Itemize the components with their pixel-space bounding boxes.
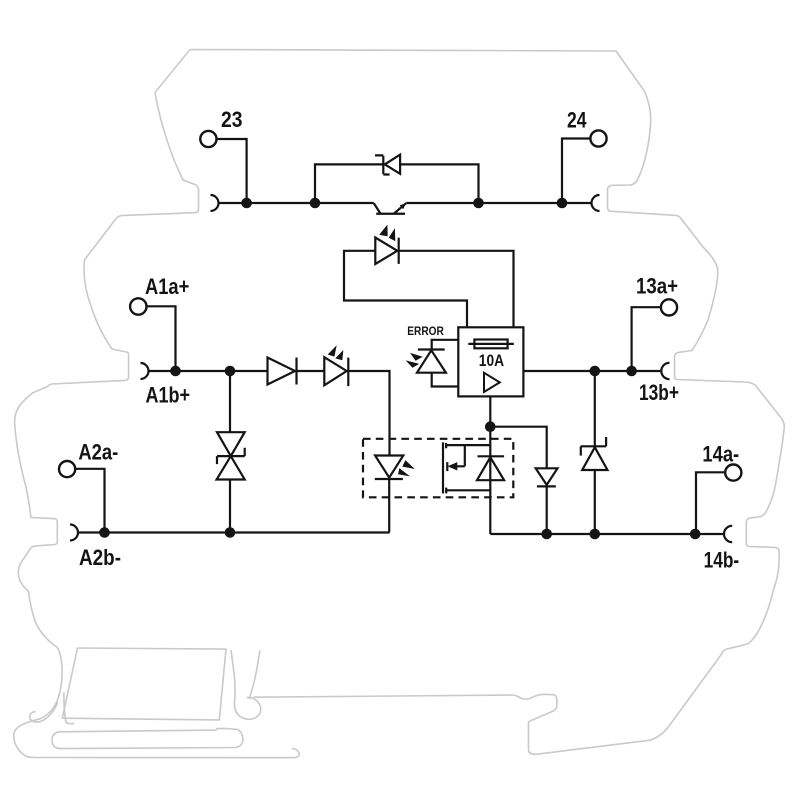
photo-SCR gate arrow bbox=[448, 462, 458, 470]
svg-text:A2a-: A2a- bbox=[78, 439, 118, 464]
ERROR LED arrows bbox=[410, 353, 423, 361]
junction node 14a drop bbox=[690, 529, 701, 540]
amplifier symbol bbox=[484, 373, 500, 392]
terminal A1b clamp arc bbox=[141, 363, 149, 379]
terminal 14b clamp arc bbox=[724, 526, 732, 542]
U1 right pin to 13b bbox=[523, 370, 661, 372]
svg-text:23: 23 bbox=[221, 107, 243, 132]
zener Z1 bbox=[375, 155, 390, 174]
ERROR LED stubs bbox=[432, 340, 459, 387]
LED L2 arrows bbox=[328, 345, 337, 356]
wire A1a bbox=[147, 306, 176, 371]
LED L1 arrows bbox=[379, 225, 388, 237]
svg-text:A1a+: A1a+ bbox=[145, 274, 189, 299]
wire 24 to row1 bbox=[562, 139, 590, 204]
junction node Z2 top bbox=[225, 366, 236, 377]
LED L2 bbox=[324, 357, 346, 385]
terminal A2b clamp arc bbox=[70, 525, 78, 541]
terminal 23b clamp arc bbox=[211, 195, 219, 211]
wire to opto bbox=[348, 371, 389, 456]
transistor Q1 emitter arrow bbox=[400, 203, 406, 209]
opto LED L3 bbox=[375, 456, 403, 478]
row3 left line bbox=[78, 531, 390, 533]
LED L1 bbox=[375, 238, 397, 265]
row3 right line bbox=[490, 533, 724, 535]
junction node 24 drop bbox=[557, 198, 568, 209]
svg-text:ERROR: ERROR bbox=[407, 326, 444, 338]
SSR block U1 bbox=[458, 327, 523, 396]
svg-text:14b-: 14b- bbox=[704, 548, 740, 573]
junction node loop right bbox=[473, 198, 484, 209]
transistor Q1 bbox=[374, 203, 407, 214]
LED L1 loop bbox=[344, 251, 467, 327]
diode D1 bbox=[268, 358, 296, 385]
svg-text:10A: 10A bbox=[479, 351, 504, 370]
svg-text:13a+: 13a+ bbox=[636, 274, 678, 299]
wire bbox=[297, 370, 325, 372]
wire row1 right bbox=[406, 202, 591, 204]
wire row2 bbox=[149, 370, 268, 372]
U1 bottom pin bbox=[489, 396, 491, 534]
fuse F1 bbox=[474, 340, 507, 349]
TVS Z2 bbox=[229, 371, 231, 533]
junction node D5 top bbox=[590, 366, 601, 377]
svg-text:14a-: 14a- bbox=[702, 442, 739, 467]
photo-SCR gate bbox=[442, 442, 444, 493]
branch to D4 bbox=[490, 427, 546, 469]
junction node 23 drop bbox=[241, 198, 252, 209]
svg-text:24: 24 bbox=[567, 108, 587, 133]
housing outline right bbox=[254, 51, 784, 754]
diode D4 bbox=[536, 468, 558, 485]
wire 14a bbox=[696, 472, 725, 534]
wire row1 left bbox=[219, 202, 374, 204]
terminal 23 circle bbox=[200, 131, 216, 147]
DIN-rail lever quad bbox=[62, 648, 226, 720]
terminal 14a circle bbox=[725, 465, 741, 481]
foot right column bbox=[231, 651, 261, 720]
terminal 13b clamp arc bbox=[661, 363, 669, 379]
junction node A1a drop bbox=[170, 366, 181, 377]
terminal 13a circle bbox=[661, 299, 677, 315]
terminal 24 circle bbox=[590, 130, 606, 146]
wire loop row1 bbox=[315, 164, 479, 203]
junction node U1 output bbox=[485, 421, 496, 432]
wire 23 to row1 bbox=[217, 139, 247, 203]
svg-text:13b+: 13b+ bbox=[639, 380, 679, 405]
junction node A2a drop bbox=[99, 527, 110, 538]
terminal A2a circle bbox=[59, 461, 75, 477]
zener D5 bbox=[594, 371, 596, 534]
foot capsule bbox=[52, 728, 243, 748]
junction node 13a drop bbox=[626, 366, 637, 377]
terminal 24b clamp arc bbox=[592, 195, 600, 211]
svg-text:A2b-: A2b- bbox=[79, 545, 121, 570]
photo-SCR diode bbox=[478, 455, 505, 457]
wire A2a bbox=[75, 469, 104, 533]
ERROR LED bbox=[418, 348, 445, 350]
junction node D4 bottom bbox=[541, 529, 552, 540]
opto LED arrows bbox=[402, 460, 415, 469]
junction node loop left bbox=[310, 198, 321, 209]
foot inner leg bbox=[64, 693, 74, 724]
optocoupler dashed box bbox=[363, 439, 513, 498]
wire 13a bbox=[632, 307, 661, 371]
housing outline left bbox=[14, 50, 616, 758]
svg-text:A1b+: A1b+ bbox=[146, 383, 191, 408]
terminal A1a circle bbox=[130, 298, 146, 314]
junction node Z2 bottom bbox=[225, 527, 236, 538]
junction node D5 bottom bbox=[590, 529, 601, 540]
